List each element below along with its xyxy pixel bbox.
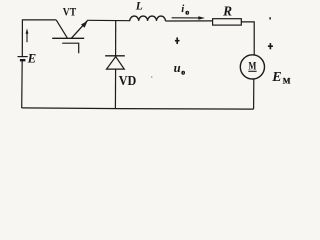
wire: from motor bottom to bottom rail — [253, 79, 255, 109]
plus sign (u_o polarity) — [175, 37, 180, 44]
wire: left vertical from battery down to bottom rail — [21, 60, 24, 108]
transistor VT emitter diagonal with arrow — [71, 21, 87, 39]
svg-text:L: L — [135, 0, 143, 12]
wire: left vertical from corner down to battery top plate — [21, 19, 23, 56]
battery E short thick plate — [20, 59, 26, 61]
svg-text:VT: VT — [63, 5, 77, 19]
svg-text:M: M — [248, 58, 256, 72]
svg-text:o: o — [185, 8, 189, 17]
transistor VT collector diagonal — [56, 20, 67, 38]
svg-text:M: M — [283, 77, 291, 86]
svg-text:VD: VD — [119, 74, 137, 89]
wire: from resistor right to top-right corner and down to motor — [241, 22, 254, 55]
wire: top rail from inductor to resistor — [165, 20, 212, 22]
battery E long plate — [18, 56, 28, 58]
ink speck mid left — [151, 76, 152, 77]
svg-text:E: E — [271, 70, 281, 85]
diode VD cathode bar — [105, 55, 125, 57]
current arrow beside source E — [26, 28, 29, 42]
diode VD triangle — [107, 57, 125, 70]
svg-text:R: R — [222, 3, 232, 18]
ink speck top right — [269, 17, 271, 19]
inductor L (4 humps) — [130, 16, 166, 21]
wire: diode branch lower vertical — [114, 69, 116, 108]
plus sign (E_M polarity) — [268, 43, 273, 49]
motor M circle — [240, 55, 264, 79]
transistor VT base lead (L-stub) — [62, 43, 78, 53]
svg-text:o: o — [181, 68, 185, 77]
svg-text:u: u — [174, 61, 181, 75]
current i_o arrow — [172, 16, 205, 20]
wire: diode branch upper vertical — [115, 20, 117, 55]
svg-text:i: i — [181, 3, 184, 15]
transistor VT base bar — [52, 37, 84, 39]
wire: top-left horizontal from source corner to VT collector — [22, 19, 56, 21]
resistor R box — [213, 19, 242, 25]
wire: bottom rail — [22, 108, 254, 109]
wire: top rail from emitter to inductor — [87, 19, 130, 21]
svg-text:E: E — [27, 52, 37, 66]
